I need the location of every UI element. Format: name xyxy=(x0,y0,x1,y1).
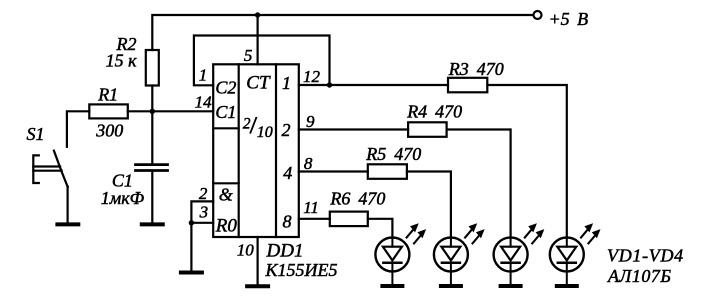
svg-text:1: 1 xyxy=(199,66,208,85)
svg-text:2: 2 xyxy=(282,120,291,140)
wire pin 3 xyxy=(191,222,213,224)
ground under pins 2-3 xyxy=(181,271,202,275)
wire R2 bottom to junction xyxy=(151,86,153,112)
svg-text:C1: C1 xyxy=(215,102,236,122)
svg-text:10: 10 xyxy=(257,124,273,141)
svg-text:300: 300 xyxy=(95,121,123,141)
svg-text:R4 470: R4 470 xyxy=(406,102,462,122)
resistor R5 body xyxy=(368,164,407,179)
svg-text:9: 9 xyxy=(306,112,315,131)
resistor R2 body xyxy=(146,50,159,86)
svg-text:R0: R0 xyxy=(215,215,238,236)
svg-text:2: 2 xyxy=(243,116,251,133)
svg-text:CT: CT xyxy=(246,73,271,94)
wire top +5V rail xyxy=(152,15,532,50)
wire pin 12 to R3 xyxy=(299,84,448,86)
LED VD2 xyxy=(434,223,485,286)
svg-text:+5 В: +5 В xyxy=(549,9,589,29)
wire R4 to LED VD3 xyxy=(447,130,511,238)
node junction on rail (pin5 tap) xyxy=(255,12,260,17)
node junction pin12/feedback xyxy=(327,82,332,87)
wire pin 11 to R6 xyxy=(299,218,330,220)
wire junction to C1 top xyxy=(151,111,153,163)
svg-text:R1: R1 xyxy=(97,84,118,104)
svg-text:S1: S1 xyxy=(27,124,45,144)
svg-text:R5 470: R5 470 xyxy=(365,144,421,164)
node junction pin3 xyxy=(189,220,194,225)
wire pin 5 from rail to IC top xyxy=(257,15,259,64)
wire R5 to LED VD2 xyxy=(407,172,451,238)
wire R3 to LED VD4 xyxy=(487,85,567,238)
+5V terminal circle xyxy=(534,11,542,19)
ground under pin 10 xyxy=(247,284,268,288)
wire R6 to LED VD1 xyxy=(368,219,393,238)
svg-text:3: 3 xyxy=(199,202,209,221)
switch S1 push rod double lines xyxy=(33,165,60,167)
wire pin 9 to R4 xyxy=(299,128,408,130)
wire R1 right to IC pin 14 xyxy=(128,110,213,112)
LED VD1 xyxy=(375,223,426,286)
resistor R3 body xyxy=(448,78,487,93)
wire pin 1 with feedback loop from pin 12 xyxy=(194,36,330,86)
ground under S1 xyxy=(57,222,78,226)
svg-text:10: 10 xyxy=(237,241,255,260)
LED VD4 xyxy=(550,223,601,286)
wire C1 bottom to ground xyxy=(151,172,153,223)
resistor R6 body xyxy=(330,212,368,227)
node junction R1/R2/C1 xyxy=(150,109,155,114)
wire pin 2 xyxy=(191,201,213,270)
LED VD3 xyxy=(494,223,545,286)
svg-text:R6 470: R6 470 xyxy=(329,189,385,209)
svg-text:1мкФ: 1мкФ xyxy=(101,188,145,208)
svg-text:C2: C2 xyxy=(215,78,236,98)
svg-text:К155ИЕ5: К155ИЕ5 xyxy=(265,260,338,280)
wire R1 left to switch xyxy=(67,111,89,147)
svg-text:14: 14 xyxy=(195,92,213,111)
svg-text:&: & xyxy=(219,184,233,204)
svg-text:11: 11 xyxy=(303,198,319,217)
svg-text:АЛ107Б: АЛ107Б xyxy=(607,266,671,286)
svg-text:VD1-VD4: VD1-VD4 xyxy=(607,245,684,265)
svg-text:8: 8 xyxy=(283,212,292,232)
switch S1 blade xyxy=(54,151,68,187)
resistor R1 body xyxy=(89,104,128,118)
capacitor C1 plates xyxy=(136,163,168,166)
svg-text:2: 2 xyxy=(199,184,208,203)
ground under C1 xyxy=(142,222,163,226)
svg-text:5: 5 xyxy=(244,46,253,65)
svg-text:R3 470: R3 470 xyxy=(448,59,504,79)
resistor R4 body xyxy=(408,122,447,137)
svg-text:4: 4 xyxy=(283,163,292,183)
wire pin 8 to R5 xyxy=(299,170,368,172)
svg-text:8: 8 xyxy=(304,154,313,173)
svg-text:1: 1 xyxy=(282,73,291,93)
wire pin 10 to ground xyxy=(257,237,259,284)
svg-text:DD1: DD1 xyxy=(266,241,304,262)
switch S1 plunger bracket xyxy=(33,155,39,183)
IC DD1 box xyxy=(213,64,299,237)
wire switch bottom lead xyxy=(66,187,68,223)
svg-text:12: 12 xyxy=(303,67,321,86)
svg-text:15 к: 15 к xyxy=(106,50,138,70)
